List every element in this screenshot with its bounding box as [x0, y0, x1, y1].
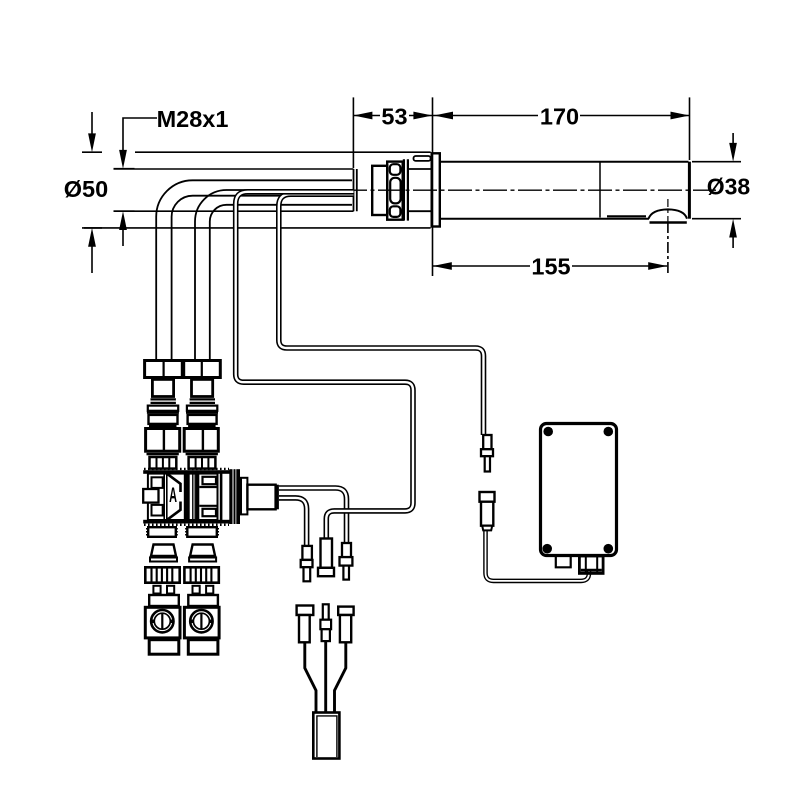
CONNECTORS-LAYER — [297, 435, 495, 759]
inner vertical pair — [164, 474, 167, 520]
hex nut facet top — [390, 164, 401, 175]
svg-text:Ø50: Ø50 — [64, 176, 108, 202]
cable D core — [279, 498, 307, 546]
washer double ring — [404, 159, 408, 220]
BOX-LAYER — [541, 424, 617, 574]
spade connector 1 pin — [304, 567, 311, 581]
box left tab — [556, 555, 571, 568]
solenoid spacer — [241, 478, 247, 515]
Y-cable right connector body — [340, 615, 351, 642]
shank body M28 — [354, 169, 357, 211]
knurled box right — [189, 457, 216, 469]
arrow 170 right — [671, 112, 690, 120]
spade connector 3 body (right, from cable C) — [342, 543, 351, 557]
right section top rect — [203, 477, 217, 484]
receptacle connector 2 body (middle, from cable A) — [321, 539, 333, 568]
line shank-top extension — [114, 168, 354, 170]
spout end cap — [688, 162, 691, 219]
spout seam vertical — [599, 162, 601, 218]
Y-cable middle connector body — [322, 629, 330, 641]
thin line pair — [193, 474, 195, 520]
thin band right — [188, 425, 216, 427]
Y-cable left connector body — [299, 615, 310, 642]
inline female connector cap — [480, 492, 495, 502]
shank segment washer-to-flange — [409, 169, 431, 211]
screw bottom-left — [542, 544, 552, 554]
svg-text:Ø38: Ø38 — [707, 174, 751, 200]
dial slot right — [200, 613, 202, 629]
extension dashed centerline of aerator — [667, 222, 669, 276]
band right — [186, 411, 218, 413]
Y-cable left connector cap — [297, 606, 314, 616]
lower fitting right — [187, 527, 217, 537]
serrated band left — [147, 453, 179, 456]
aerator centerline upper — [667, 199, 669, 222]
aerator dome — [649, 209, 688, 218]
PIPES-LAYER — [156, 180, 352, 360]
thread rings left — [151, 399, 176, 403]
stop valve body right — [184, 607, 219, 638]
collar ring left — [148, 406, 178, 411]
M28x1 leader — [123, 118, 157, 151]
pipe 1 outer wall — [156, 180, 352, 360]
box bottom connector outer — [579, 556, 603, 573]
M28 ticks — [114, 169, 135, 212]
Y-cable wire left — [305, 642, 316, 713]
screw bottom-right — [604, 544, 614, 554]
dial circle outer left — [151, 610, 173, 632]
dia50 upper shaft+arrow (down) — [91, 112, 93, 135]
box bottom connector inner verticals — [586, 557, 597, 573]
knurl lines right — [191, 567, 212, 582]
extension line middle (flange face, shared 53/170/155) — [432, 97, 434, 276]
dial nubs right — [192, 620, 211, 624]
collar ring right — [187, 406, 217, 411]
inline male connector collar — [481, 449, 493, 456]
valve block top band serration — [144, 468, 229, 470]
Y-cable wire middle — [324, 641, 327, 713]
screw top-right — [604, 427, 614, 437]
cable C solenoid wire 1 outer — [279, 488, 347, 543]
thread rings right — [190, 399, 215, 403]
inner rect top-left — [152, 477, 163, 488]
control box body — [541, 424, 617, 556]
solenoid coil body — [247, 485, 275, 510]
pipe 2 inner wall — [210, 205, 352, 360]
knurled box left — [150, 457, 177, 469]
extension line right (170, spout end) — [689, 97, 691, 160]
VALVE-LAYER — [143, 361, 279, 655]
inline female connector body — [481, 502, 493, 526]
receptacle connector 2 cap — [318, 568, 334, 576]
svg-text:M28x1: M28x1 — [157, 106, 229, 132]
hex nut facet bottom — [390, 206, 401, 217]
stop valve body left — [145, 607, 180, 638]
knurled box left slots — [157, 457, 170, 469]
cone base left — [150, 558, 177, 562]
large block left divider — [163, 429, 165, 452]
dial circle inner right — [193, 613, 209, 629]
dia50 lower arrow (up) + shaft — [88, 228, 96, 247]
mid thick bar — [184, 474, 190, 520]
upper compression nut left — [145, 361, 183, 378]
fitting body right — [192, 379, 213, 396]
cable A valve cable outer — [236, 192, 413, 539]
line shank-bottom extension — [114, 210, 354, 212]
M28 upper arrow (down) — [119, 150, 127, 169]
cable C core — [279, 488, 347, 543]
pipe 2 outer wall — [195, 190, 352, 360]
knurl lines left — [152, 567, 173, 582]
inline male connector pin — [485, 456, 490, 471]
CABLES-LAYER — [236, 192, 589, 713]
funnel diagonal bottom — [168, 502, 181, 520]
solenoid end cap — [275, 485, 279, 510]
pipe 1 inner wall — [172, 196, 352, 360]
upper compression nut right — [184, 361, 221, 378]
hex nut facet middle — [390, 178, 400, 204]
Y-cable wire right — [335, 642, 346, 713]
shank collar — [372, 166, 387, 215]
cone left — [151, 545, 176, 557]
spout body top line — [441, 161, 689, 163]
inline male connector body — [483, 435, 491, 449]
right section mid lines — [199, 487, 217, 506]
large block right divider — [202, 429, 204, 452]
extension line left (53) — [352, 97, 354, 168]
spade connector 3 collar — [340, 557, 353, 566]
cone base right — [189, 558, 216, 562]
hex nut crown outline — [387, 162, 403, 220]
valve block top band — [143, 470, 229, 474]
cable B core — [279, 194, 484, 435]
lower fitting right serration — [186, 528, 218, 536]
bottom block right — [188, 640, 218, 655]
spade connector 3 pin — [343, 566, 349, 580]
Y-cable plug outer — [313, 713, 339, 759]
stop valve top box right — [188, 595, 218, 606]
FAUCET-LAYER — [343, 153, 716, 226]
dim 53/170 dimension line — [353, 115, 689, 117]
valve block body outline — [148, 474, 218, 520]
svg-text:170: 170 — [540, 103, 579, 129]
knurled nut left — [145, 567, 179, 582]
second thick bar — [196, 474, 200, 520]
inner rect bottom-left — [152, 505, 163, 516]
dia38 ticks + extension lines — [692, 162, 741, 219]
arrow 53 right — [413, 112, 432, 120]
band left — [147, 411, 179, 413]
lower fitting left — [148, 527, 176, 537]
aerator base — [650, 221, 687, 224]
top clip tab — [414, 156, 431, 161]
dia38 upper shaft+arrow (down) — [732, 133, 734, 144]
Y-cable right connector cap — [338, 607, 353, 615]
serrated band right — [186, 453, 218, 456]
dia50 ticks — [82, 152, 102, 228]
DIMENSIONS-LAYER — [64, 97, 751, 279]
line flange-top extension — [135, 151, 431, 153]
thin band left — [149, 425, 177, 427]
dia38 lower arrow (up) + shaft — [729, 219, 737, 238]
arrow 170 left — [434, 112, 453, 120]
box bottom connector lower band — [581, 569, 602, 572]
svg-text:53: 53 — [381, 103, 407, 129]
cable D solenoid wire 2 outer — [279, 498, 307, 546]
left port stub — [143, 489, 158, 503]
M28 lower shaft — [122, 229, 124, 246]
valve block bottom band serration — [144, 524, 229, 526]
valve block bottom band — [143, 520, 229, 524]
dial nubs left — [153, 620, 172, 624]
wire female-connector to box outer — [486, 531, 590, 581]
upper nut left facet line — [163, 361, 165, 377]
bottom block left — [149, 640, 179, 655]
faucet centerline — [343, 189, 716, 191]
line flange-bottom extension — [84, 227, 431, 229]
Y-cable plug inner walls — [317, 716, 337, 757]
arrow 53 left — [353, 112, 372, 120]
dim 155 dimension line — [433, 265, 667, 267]
cone right — [190, 545, 215, 557]
wire core — [486, 531, 590, 581]
knurled box right slots — [196, 457, 209, 469]
spade connector 1 collar — [301, 560, 313, 567]
arrow 155 left — [433, 262, 452, 270]
arrow 155 right — [648, 262, 667, 270]
cable A core — [236, 192, 413, 539]
solenoid flange bars — [220, 471, 223, 521]
fitting body left — [152, 379, 173, 396]
lower fitting left serration — [147, 528, 177, 536]
spade connector 1 body (left, from cable D) — [302, 546, 312, 560]
neck rects left — [153, 586, 160, 594]
screw top-left — [543, 427, 553, 437]
upper nut right facet line — [201, 361, 203, 377]
spout body bottom line — [441, 218, 649, 220]
white box right — [188, 415, 217, 424]
large block left — [146, 429, 180, 452]
stop valve top box left — [149, 595, 179, 606]
sensor window bottom line — [607, 215, 646, 217]
cable B sensor cable outer — [279, 194, 484, 435]
large block right — [184, 429, 218, 452]
neck rects right — [193, 586, 200, 594]
dial slot left — [161, 613, 163, 629]
svg-text:155: 155 — [531, 253, 570, 279]
knurled nut right — [184, 567, 218, 582]
wall flange plate — [432, 153, 440, 226]
svg-text:A: A — [169, 483, 177, 507]
funnel diagonal top — [168, 474, 181, 492]
Y-cable middle connector stem — [323, 604, 329, 619]
dial circle inner left — [154, 613, 170, 629]
M28 lower arrow (up) — [119, 211, 127, 230]
inline female connector taper — [482, 526, 492, 531]
white box left — [149, 415, 178, 424]
Y-cable middle connector block — [320, 620, 331, 630]
right section bottom rect — [203, 509, 217, 516]
dial circle outer right — [190, 610, 212, 632]
